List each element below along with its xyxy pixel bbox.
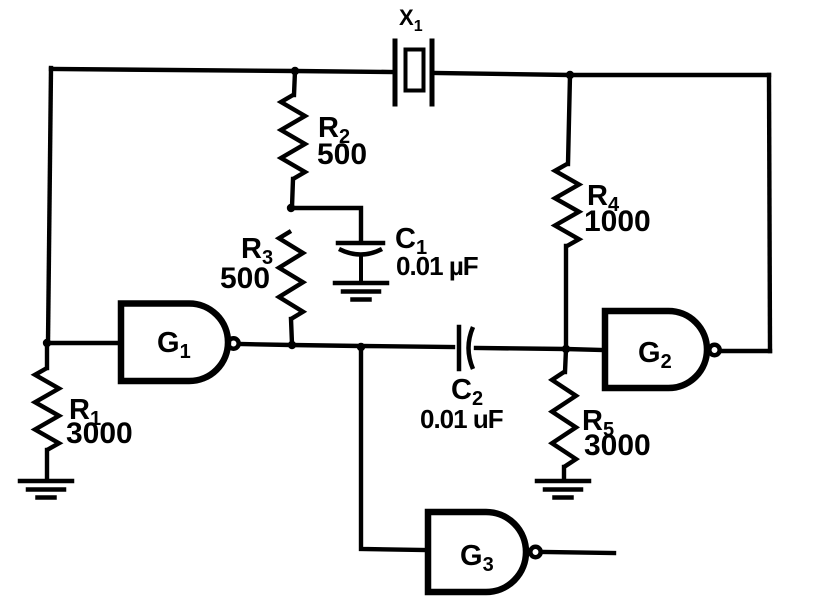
svg-text:G2: G2 [638, 337, 672, 373]
capacitor C1 [338, 243, 383, 281]
ground for R1 [20, 481, 72, 498]
label R2 value 500 [317, 112, 367, 171]
label G3 [460, 540, 494, 576]
node: junction main wire / R4 / R5 [562, 345, 570, 353]
nand gate G3 [428, 512, 541, 592]
resistor R2 [281, 71, 305, 207]
wire: G2 output to feedback rail [720, 349, 770, 353]
label G1 [157, 327, 191, 363]
svg-text:G1: G1 [157, 327, 191, 363]
node: junction of top rail and R4 [566, 71, 574, 79]
label R5 value 3000 [582, 405, 651, 462]
nand gate G1 [121, 304, 239, 382]
label X1 [399, 5, 423, 35]
wire: top rail left segment to crystal [51, 69, 392, 72]
node: junction left rail / R1 / G1 input [43, 339, 51, 347]
node: junction R2/R3/C1 [287, 204, 295, 212]
resistor R4 [555, 75, 579, 347]
label R4 value 1000 [584, 180, 651, 238]
svg-text:500: 500 [220, 262, 270, 295]
svg-text:0.01 µF: 0.01 µF [396, 251, 478, 281]
capacitor C2 [459, 327, 473, 369]
wire: G1 input from left rail [48, 341, 118, 345]
svg-text:500: 500 [317, 138, 367, 171]
node: junction main wire / G3 branch [357, 343, 365, 351]
ground for C1 [335, 283, 387, 300]
svg-text:X1: X1 [399, 5, 423, 35]
label R3 value 500 [220, 233, 273, 295]
wire: C2 to G2 input [476, 348, 602, 350]
wire: right vertical feedback rail [769, 75, 770, 351]
wire: branch to G3 [361, 347, 425, 550]
resistor R3 [279, 231, 303, 344]
crystal X1 [395, 41, 432, 104]
wire: G3 output [543, 552, 614, 553]
svg-text:0.01 uF: 0.01 uF [420, 404, 503, 434]
label C1 value 0.01 uF [395, 223, 478, 281]
node: junction of top rail and R2 [291, 67, 299, 75]
resistor R1 [35, 343, 59, 479]
wire: top rail right segment from crystal [434, 73, 769, 75]
resistor R5 [552, 349, 576, 479]
svg-text:3000: 3000 [584, 429, 651, 462]
wire: G1 output main wire to C2 [239, 344, 453, 347]
label G2 [638, 337, 672, 373]
nand gate G2 [605, 311, 720, 388]
svg-text:3000: 3000 [66, 417, 133, 450]
svg-text:G3: G3 [460, 540, 494, 576]
label C2 value 0.01 uF [420, 374, 503, 434]
wire: junction to C1 [291, 208, 361, 241]
label R1 value 3000 [66, 394, 133, 450]
svg-text:1000: 1000 [584, 205, 651, 238]
ground for R5 [537, 481, 589, 498]
node: junction main wire / R3 [288, 341, 296, 349]
wire: left vertical rail [48, 68, 51, 343]
